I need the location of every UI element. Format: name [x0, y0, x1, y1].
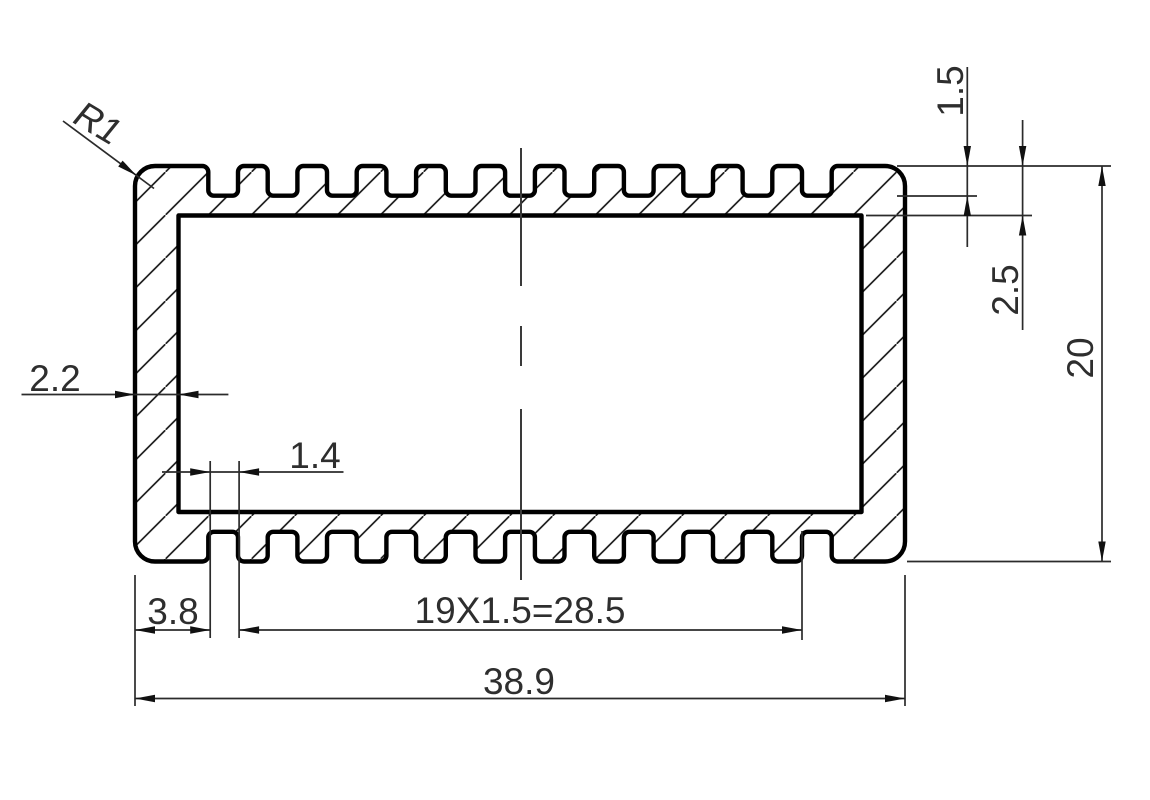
arrow 3.8 left — [135, 626, 155, 633]
arrow 28.5 right — [782, 626, 802, 633]
extension line x=135 (38.9) — [134, 575, 136, 706]
arrow 38.9 right — [885, 695, 905, 702]
extension line x=210 (1.4/3.8) — [209, 461, 211, 638]
arrow 1.4 right — [239, 468, 259, 475]
vertical centerline — [520, 148, 522, 580]
arrow 3.8 right — [190, 626, 210, 633]
extension line x=802 (28.5) — [801, 531, 803, 640]
arrow 20 bottom — [1098, 542, 1105, 562]
svg-text:3.8: 3.8 — [147, 591, 198, 632]
arrow 2.5 top — [1019, 146, 1026, 166]
extension line inner-top right — [866, 215, 1032, 217]
extension line x=905 (38.9) — [904, 575, 906, 706]
svg-text:2.5: 2.5 — [985, 264, 1026, 315]
dimension line 38.9 — [135, 698, 905, 700]
dimension line 1.5 — [966, 67, 968, 247]
extension line groove-root right — [897, 195, 977, 197]
arrow 2.5 bottom — [1019, 216, 1026, 236]
arrow 1.5 bottom — [964, 196, 971, 216]
dimension line 19X1.5=28.5 — [239, 629, 802, 631]
svg-text:2.2: 2.2 — [29, 358, 80, 399]
extension line x=239 (1.4/28.5) — [238, 461, 240, 638]
extension line tooth-top right — [897, 165, 1111, 167]
arrow 1.4 left — [190, 468, 210, 475]
arrow 2.2 left — [115, 391, 135, 398]
arrow 2.2 right — [179, 391, 199, 398]
dimension line 1.4 — [162, 471, 344, 473]
arrow R1 leader — [118, 161, 136, 176]
arrow 20 top — [1098, 166, 1105, 186]
arrow 1.5 top — [964, 146, 971, 166]
svg-text:1.5: 1.5 — [930, 65, 971, 116]
extension line bottom right — [907, 561, 1111, 563]
svg-text:38.9: 38.9 — [483, 661, 555, 702]
arrow 28.5 left — [239, 626, 259, 633]
svg-text:20: 20 — [1060, 337, 1101, 378]
dimension line 20 — [1101, 166, 1103, 562]
svg-text:19X1.5=28.5: 19X1.5=28.5 — [415, 590, 626, 631]
dimension line 2.5 — [1022, 120, 1024, 330]
arrow 38.9 left — [135, 695, 155, 702]
dimension line 2.2 — [22, 394, 229, 396]
dimension line 3.8 — [135, 629, 210, 631]
leader line R1 — [63, 121, 154, 189]
profile cross-section with teeth (hatched walls) — [135, 166, 905, 562]
svg-text:1.4: 1.4 — [289, 435, 340, 476]
